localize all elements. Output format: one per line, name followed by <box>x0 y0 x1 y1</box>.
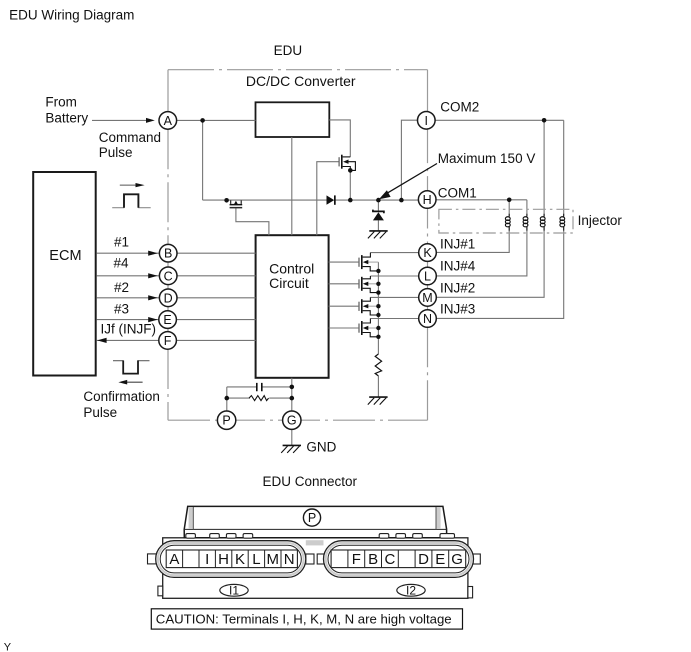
svg-text:Confirmation: Confirmation <box>83 389 160 404</box>
resistor R2 (P-G) <box>249 396 269 401</box>
diode D1 <box>327 195 336 204</box>
svg-text:I1: I1 <box>229 584 239 598</box>
wire COM1 to coil1 <box>508 200 510 214</box>
transistor Q6 (INJ#3 driver) <box>358 319 378 337</box>
ground (GND at G) <box>281 445 301 453</box>
svg-text:F: F <box>164 334 172 348</box>
svg-text:G: G <box>287 414 297 428</box>
junction dots <box>200 118 546 400</box>
arrow into A <box>146 118 155 123</box>
wire Q2 source to rail <box>349 170 351 200</box>
svg-text:A: A <box>169 551 179 568</box>
svg-text:G: G <box>451 551 463 568</box>
EDU border bottom <box>168 419 428 421</box>
wire Q1 gate to control <box>236 208 269 235</box>
wire ECM #2 to D <box>96 297 168 299</box>
svg-text:INJ#2: INJ#2 <box>440 280 475 295</box>
arrow into C <box>148 273 158 278</box>
svg-text:M: M <box>267 551 280 568</box>
svg-text:E: E <box>435 551 445 568</box>
arrow into D <box>148 295 158 300</box>
wire zener to ground <box>377 220 379 230</box>
socket I1 shell <box>156 541 306 578</box>
wire COM1 to coil2 <box>526 200 528 214</box>
wire coil2 to L <box>428 231 527 276</box>
node Q1 gate-in junction <box>224 198 229 203</box>
wire coil4 to N <box>428 231 564 319</box>
confirmation pulse arrow <box>127 381 143 383</box>
node Q4 source junction <box>376 290 380 294</box>
svg-text:D: D <box>164 291 173 305</box>
wire control to G <box>291 378 293 420</box>
wire 150V rail left <box>203 199 327 201</box>
transistor Q1 (DC/DC switch) <box>230 200 243 208</box>
node res-G junction <box>290 396 295 401</box>
node COM1 coil1 junction <box>507 198 512 203</box>
svg-text:D: D <box>418 551 429 568</box>
inductor coil L3 (INJ#2) <box>540 214 545 231</box>
svg-text:Maximum 150 V: Maximum 150 V <box>438 151 536 166</box>
svg-text:N: N <box>423 312 432 326</box>
svg-text:Pulse: Pulse <box>83 405 117 420</box>
wire G to ground <box>291 429 293 445</box>
svg-text:INJ#3: INJ#3 <box>440 302 475 317</box>
socket label I1 <box>220 584 248 598</box>
svg-text:Y: Y <box>4 641 12 652</box>
terminal C <box>159 267 177 285</box>
wire DC/DC out to Q2 drain <box>329 120 350 157</box>
socket I2 left ear <box>317 554 324 564</box>
svg-text:DC/DC Converter: DC/DC Converter <box>246 73 356 89</box>
control circuit block U1 <box>256 235 329 378</box>
svg-text:B: B <box>368 551 378 568</box>
terminal P (connector view) <box>303 509 320 526</box>
wire to P <box>226 387 228 420</box>
svg-text:Injector: Injector <box>578 213 623 228</box>
wire DC/DC bottom to control <box>291 137 293 235</box>
capacitor C1 <box>257 383 262 391</box>
arrow F into ECM <box>97 338 106 343</box>
socket I2 terminal cells <box>331 550 466 568</box>
node Q4 substrate junction <box>376 282 380 286</box>
terminal B <box>159 244 177 262</box>
wire D to control <box>168 297 256 299</box>
DC/DC converter block <box>256 102 330 137</box>
wire E to control <box>168 319 256 321</box>
svg-text:F: F <box>352 551 361 568</box>
wire bus to ground <box>377 376 379 397</box>
socket I2 shell <box>324 541 474 578</box>
terminal G <box>283 411 301 429</box>
svg-text:C: C <box>164 269 173 283</box>
zener diode ZD1 <box>373 210 384 221</box>
ground (zener) <box>368 231 388 239</box>
resistor R1 (source bus) <box>375 354 381 376</box>
terminal P <box>217 411 235 429</box>
svg-text:K: K <box>235 551 245 568</box>
terminal N <box>419 310 437 328</box>
command pulse waveform <box>112 207 151 209</box>
node Q3 source junction <box>376 269 380 273</box>
wire 150V rail right <box>336 199 428 201</box>
svg-text:L: L <box>252 551 260 568</box>
node Q5 substrate junction <box>376 304 380 308</box>
wire COM1 <box>428 199 527 201</box>
connector right foot tab <box>468 587 473 598</box>
transistor Q2 (output switch) <box>339 155 356 171</box>
svg-text:IJf (INJF): IJf (INJF) <box>101 322 157 337</box>
connector lock tabs row <box>186 534 455 539</box>
transistor Q4 (INJ#4 driver) <box>358 276 378 293</box>
node Q5 source junction <box>376 313 380 317</box>
svg-text:L: L <box>424 270 431 284</box>
arrow into E <box>148 317 158 322</box>
svg-text:#2: #2 <box>114 280 129 295</box>
EDU border right <box>427 70 429 112</box>
node COM2-rail junction <box>399 198 404 203</box>
wire ECM #1 to B <box>96 252 168 254</box>
wire coil1 to K <box>428 231 510 253</box>
svg-text:COM1: COM1 <box>438 186 477 201</box>
wire Q3 drain to K <box>370 252 427 254</box>
wire COM2 to coil4 <box>563 120 565 213</box>
terminal M <box>419 289 437 307</box>
command pulse arrow <box>120 184 136 186</box>
wire I to rail <box>401 120 427 200</box>
terminal A <box>159 112 177 130</box>
svg-text:K: K <box>423 246 432 260</box>
node cap-G junction <box>290 385 295 390</box>
svg-text:Battery: Battery <box>45 111 88 126</box>
wire cap left <box>227 386 256 388</box>
transistor Q5 (INJ#2 driver) <box>358 297 378 315</box>
terminal E <box>159 311 177 329</box>
svg-text:COM2: COM2 <box>440 99 479 114</box>
confirmation pulse waveform <box>113 360 150 362</box>
node Q6 substrate junction <box>376 326 380 330</box>
node A junction <box>200 118 205 123</box>
wire zener top <box>377 200 379 211</box>
svg-text:P: P <box>308 511 316 525</box>
svg-text:A: A <box>164 114 173 128</box>
svg-text:From: From <box>45 94 77 109</box>
wire source bus <box>377 262 379 354</box>
wire Q6 drain to N <box>370 318 427 320</box>
node Q2 source junction <box>348 168 353 173</box>
wire control to Q6 gate <box>329 327 359 329</box>
wire C to control <box>168 275 256 277</box>
svg-text:INJ#4: INJ#4 <box>440 258 476 273</box>
svg-text:Circuit: Circuit <box>269 275 309 291</box>
wire control to Q3 gate <box>329 261 359 263</box>
svg-text:N: N <box>284 551 295 568</box>
caution note box <box>151 609 462 629</box>
svg-text:ECM: ECM <box>49 248 81 264</box>
svg-text:#1: #1 <box>114 234 129 249</box>
svg-text:C: C <box>384 551 395 568</box>
node Q6 source junction <box>376 335 380 339</box>
svg-text:I2: I2 <box>406 584 416 598</box>
svg-text:Command: Command <box>99 130 161 145</box>
wire coil3 to M <box>428 231 545 297</box>
svg-text:EDU Wiring Diagram: EDU Wiring Diagram <box>9 7 134 22</box>
wire Q5 drain to M <box>370 296 427 298</box>
terminal D <box>159 289 177 307</box>
wire Q2 gate to control <box>317 162 339 236</box>
svg-text:#4: #4 <box>114 255 130 270</box>
svg-text:EDU: EDU <box>274 43 303 58</box>
node COM2 coil3 junction <box>542 118 547 123</box>
svg-text:I: I <box>205 551 209 568</box>
terminal H <box>418 191 436 209</box>
svg-text:Pulse: Pulse <box>99 145 133 160</box>
socket I2 right ear <box>473 554 480 564</box>
socket I1 terminal cells <box>166 550 297 568</box>
wire control to Q5 gate <box>329 305 359 307</box>
inductor coil L4 (INJ#3) <box>560 214 565 231</box>
inductor coil L2 (INJ#4) <box>523 214 528 231</box>
socket label I2 <box>397 584 425 598</box>
wire res left <box>227 397 250 399</box>
node zener junction <box>376 198 381 203</box>
svg-text:H: H <box>423 193 432 207</box>
wire Q4 drain to L <box>370 275 427 277</box>
socket I1 right ear <box>306 554 314 564</box>
connector left foot tab <box>158 586 163 596</box>
svg-text:#3: #3 <box>114 301 129 316</box>
svg-text:M: M <box>422 291 432 305</box>
wire COM2 <box>428 119 564 121</box>
terminal I <box>418 112 436 130</box>
socket ears <box>148 554 481 564</box>
wire battery to A <box>92 119 147 121</box>
svg-text:GND: GND <box>306 439 336 454</box>
wire B to control <box>168 252 256 254</box>
Maximum 150V pointer arrow <box>379 164 437 200</box>
wire A to DC/DC <box>168 119 256 121</box>
EDU border top <box>168 69 428 71</box>
svg-text:E: E <box>163 313 171 327</box>
svg-text:EDU Connector: EDU Connector <box>263 474 358 489</box>
wire cap right <box>262 386 291 388</box>
injector assembly dash-dot box <box>439 209 573 233</box>
ground (source bus) <box>368 397 388 405</box>
svg-text:B: B <box>164 247 172 261</box>
connector top cover (trapezoid) <box>184 506 446 537</box>
EDU border left <box>167 70 169 112</box>
arrow into B <box>148 251 158 256</box>
node diode out junction <box>348 198 353 203</box>
terminal F <box>159 332 177 350</box>
svg-text:P: P <box>222 414 230 428</box>
wire control to Q4 gate <box>329 283 359 285</box>
terminal L <box>419 267 437 285</box>
svg-text:H: H <box>218 551 229 568</box>
socket I1 left ear <box>148 554 157 564</box>
ECM block <box>33 172 95 376</box>
node res-P junction <box>225 396 230 401</box>
wire ECM #3 to E <box>96 319 168 321</box>
svg-text:INJ#1: INJ#1 <box>440 236 475 251</box>
svg-text:CAUTION: Terminals I, H, K, M,: CAUTION: Terminals I, H, K, M, N are hig… <box>156 611 452 626</box>
svg-text:I: I <box>425 114 428 128</box>
EDU connector body <box>158 538 473 599</box>
wire COM2 to coil3 <box>543 120 545 213</box>
gray gap shading between sockets <box>306 540 324 545</box>
wire res right <box>269 397 292 399</box>
wire F to control <box>168 339 256 341</box>
wire node A down <box>202 120 204 200</box>
wire F to ECM <box>96 339 168 341</box>
svg-text:Control: Control <box>269 261 314 277</box>
terminal K <box>419 244 437 262</box>
wire ECM #4 to C <box>96 275 168 277</box>
transistor Q3 (INJ#1 driver) <box>358 253 378 271</box>
inductor coil L1 (INJ#1) <box>505 214 510 231</box>
